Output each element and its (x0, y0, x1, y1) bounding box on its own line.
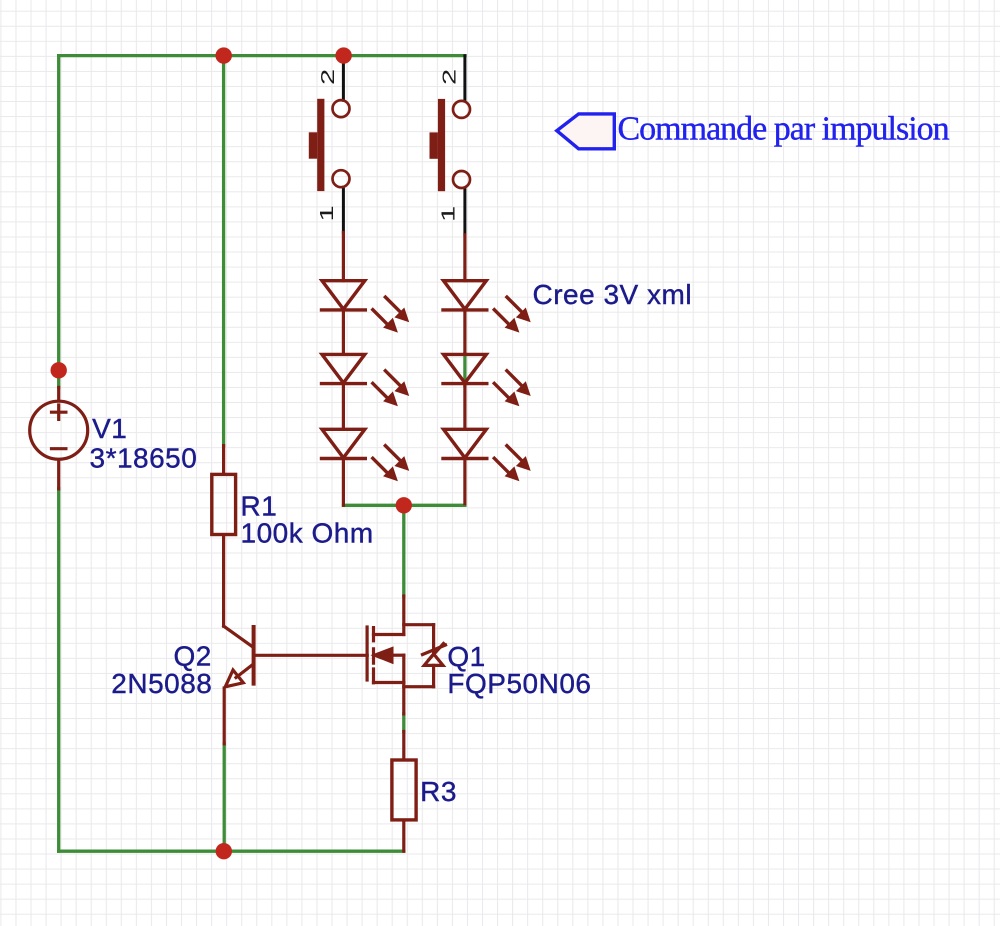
wire Q2 emitter to bottom net (223, 744, 226, 851)
wire left vertical from top to V1 (57, 56, 60, 388)
pin R1 top (222, 446, 225, 473)
svg-text:Commande par impulsion: Commande par impulsion (618, 110, 950, 147)
Q1 bulk arrowhead (375, 649, 392, 663)
wire middle vertical to R1 (222, 56, 225, 446)
junction dot top S1 (335, 47, 351, 63)
svg-text:R3: R3 (420, 776, 457, 807)
pin R3 top (402, 732, 405, 759)
Q1 body diode (404, 625, 446, 687)
junction dot LED bottom (396, 497, 412, 513)
pushbutton S2 (430, 99, 471, 191)
svg-text:1: 1 (317, 205, 337, 221)
LED D6 (443, 429, 531, 481)
svg-text:V1: V1 (92, 413, 127, 444)
svg-text:2: 2 (440, 69, 460, 85)
wire S2 to LED chain 2 (463, 235, 466, 504)
resistor R3 (392, 760, 416, 820)
pin R3 bottom (402, 822, 405, 852)
wire V1 bottom to bottom-left corner (57, 489, 60, 851)
svg-text:2: 2 (318, 69, 338, 85)
svg-text:100k Ohm: 100k Ohm (241, 517, 374, 548)
junction dot top R1 (216, 47, 232, 63)
mosfet Q1 (367, 596, 404, 714)
svg-text:2N5088: 2N5088 (111, 668, 212, 699)
LED D5 (443, 354, 531, 406)
wire bottom net (59, 850, 404, 853)
LED D2 (322, 354, 410, 406)
pin V1 bottom (57, 460, 60, 489)
wire LED node down to Q1 drain (402, 505, 405, 596)
wire LED bottom horizontal (344, 504, 465, 507)
resistor R1 (212, 474, 236, 534)
voltage source V1 (30, 401, 88, 459)
svg-text:1: 1 (439, 206, 459, 222)
wire green overlay right LED2 (463, 354, 466, 386)
wire top net V+ (59, 54, 465, 57)
callout flag (557, 114, 615, 149)
transistor Q2 (224, 626, 367, 683)
junction dot V1 top (51, 362, 67, 378)
pushbutton S1 pins (black) (342, 56, 345, 233)
svg-text:FQP50N06: FQP50N06 (447, 668, 591, 699)
LED D4 (443, 281, 531, 333)
LED D1 (322, 281, 410, 333)
wire S1 to LED chain 1 (342, 233, 345, 506)
junction dot bottom net (216, 843, 232, 859)
wire R1 bottom to Q2 collector (222, 536, 225, 626)
pin V1 top (57, 387, 60, 400)
wire Q1 source to R3 (402, 714, 405, 732)
pushbutton S1 (309, 99, 350, 191)
svg-text:Cree 3V xml: Cree 3V xml (533, 279, 693, 310)
pushbutton S2 pins (black) (463, 56, 466, 235)
svg-text:3*18650: 3*18650 (90, 443, 198, 474)
Q2 emitter arrowhead (225, 670, 243, 687)
pin Q2 emitter (223, 688, 226, 744)
LED D3 (322, 429, 410, 481)
